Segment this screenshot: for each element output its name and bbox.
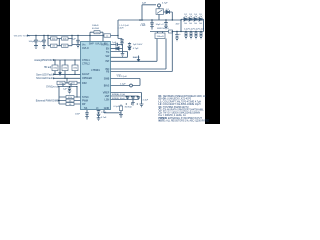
svg-text:10k: 10k [69,100,72,102]
svg-text:4µH: 4µH [142,2,146,4]
svg-text:402k: 402k [63,38,67,40]
svg-text:10µF: 10µF [38,41,44,43]
svg-text:CTRL2: CTRL2 [82,62,90,65]
svg-text:BAS21: BAS21 [133,56,141,59]
svg-text:L1 4.7µH: L1 4.7µH [120,25,129,27]
svg-text:FB: FB [106,71,109,74]
svg-text:C5: TAIYO YUDEN GMK325ABJ106MN: C5: TAIYO YUDEN GMK325ABJ106MN [159,111,201,114]
svg-text:SWB(A) 4.7µH: SWB(A) 4.7µH [112,93,126,96]
svg-text:10µF ×2: 10µF ×2 [156,23,165,26]
svg-text:20k: 20k [52,46,55,48]
svg-text:SYNC(FLT): SYNC(FLT) [46,86,57,88]
svg-text:100k: 100k [95,32,99,34]
svg-text:LSP: LSP [105,95,110,98]
svg-text:100k: 100k [59,83,63,85]
svg-text:BIAS: BIAS [104,84,110,87]
svg-text:FAULT: FAULT [82,73,90,76]
svg-text:SHP: SHP [89,43,94,46]
svg-text:VIN 4.5V TO 60V: VIN 4.5V TO 60V [14,35,31,37]
svg-text:L3 4.7µH: L3 4.7µH [118,76,127,78]
svg-text:D1: NEXPERIA PMEG100T020ELR 10: D1: NEXPERIA PMEG100T020ELR 100V, 2A [159,95,207,98]
svg-text:Analog/PWM DIM: Analog/PWM DIM [34,59,52,62]
svg-text:1kΩ: 1kΩ [141,24,145,26]
svg-text:2.2µF: 2.2µF [199,28,205,30]
svg-text:40V: 40V [176,23,180,25]
svg-text:150mΩ: 150mΩ [157,36,164,38]
svg-text:RP: RP [82,103,86,106]
svg-text:10nF: 10nF [75,114,81,116]
svg-text:TG: TG [106,51,109,54]
svg-text:fSW = 400kHz, 4 LEDs, 1A: fSW = 400kHz, 4 LEDs, 1A [159,114,187,117]
svg-text:SWB: SWB [104,77,110,80]
svg-text:SW/CHOLD: SW/CHOLD [157,28,169,30]
svg-text:GND: GND [104,107,110,110]
svg-text:PWMIN: EXTERNAL SYNC/PWM IN PU: PWMIN: EXTERNAL SYNC/PWM IN PUT [159,117,203,120]
svg-text:0.1µF: 0.1µF [114,106,120,108]
svg-text:C2, C3: MURATA GRM32ER71H475KA: C2, C3: MURATA GRM32ER71H475KA88L [159,109,205,112]
svg-text:External PWM DIM: External PWM DIM [36,99,57,102]
svg-text:Short LED Fault: Short LED Fault [36,77,53,80]
svg-text:SW: SW [105,55,110,58]
svg-text:DIM: DIM [82,82,86,85]
svg-text:Q1: TOSHIBA SSM3K123TU: Q1: TOSHIBA SSM3K123TU [159,106,189,109]
svg-text:41.2k: 41.2k [68,97,72,99]
svg-text:100k: 100k [71,83,75,85]
svg-text:40.2kΩ: 40.2kΩ [92,28,99,30]
svg-text:30.9kΩ: 30.9kΩ [125,107,132,109]
svg-text:1µF: 1µF [112,42,116,44]
svg-text:4.7µF: 4.7µF [162,2,168,4]
svg-text:100k: 100k [63,46,67,48]
svg-text:1µF 100V: 1µF 100V [133,44,143,46]
svg-text:HD adj: HD adj [44,67,52,69]
svg-text:100µF: 100µF [29,41,36,43]
svg-text:4.7µF: 4.7µF [143,99,149,101]
svg-text:4.7nF: 4.7nF [101,117,107,119]
svg-text:L1: COILCRAFT XAL7070-472ME 4.: L1: COILCRAFT XAL7070-472ME 4.7µH [159,100,202,103]
svg-text:SS: SS [84,107,88,110]
svg-text:OVLO: OVLO [82,47,89,50]
svg-text:100kΩ: 100kΩ [92,25,99,27]
svg-text:4.7µF: 4.7µF [133,48,139,50]
svg-text:LT8391: LT8391 [91,68,100,72]
svg-text:10k: 10k [69,104,72,106]
svg-text:1.5nF: 1.5nF [101,112,107,114]
svg-text:L2: L2 [106,35,108,37]
svg-text:INTVCC: INTVCC [101,43,110,46]
svg-text:L2: COILCRAFT XAL5050-103ME 10: L2: COILCRAFT XAL5050-103ME 10µH [159,103,201,106]
svg-text:NOTE: ALL RESISTORS 1%, AEC-Q2: NOTE: ALL RESISTORS 1%, AEC-Q200 RATED [159,119,210,122]
svg-text:2.2µF: 2.2µF [120,83,126,85]
svg-text:1µF: 1µF [72,39,76,41]
svg-text:LSN: LSN [105,99,110,102]
svg-text:OPNLED: OPNLED [82,77,92,80]
svg-text:Open LED Fault: Open LED Fault [36,73,53,76]
svg-text:ISP: ISP [105,60,109,63]
svg-text:100k: 100k [52,38,56,40]
svg-text:4.7µH: 4.7µH [118,28,124,30]
svg-text:D2–D5: LUMILEDS LXZ1-4070: D2–D5: LUMILEDS LXZ1-4070 [159,99,192,101]
svg-text:EN: EN [106,47,110,50]
svg-text:SWB(B) 10µH: SWB(B) 10µH [112,98,125,100]
